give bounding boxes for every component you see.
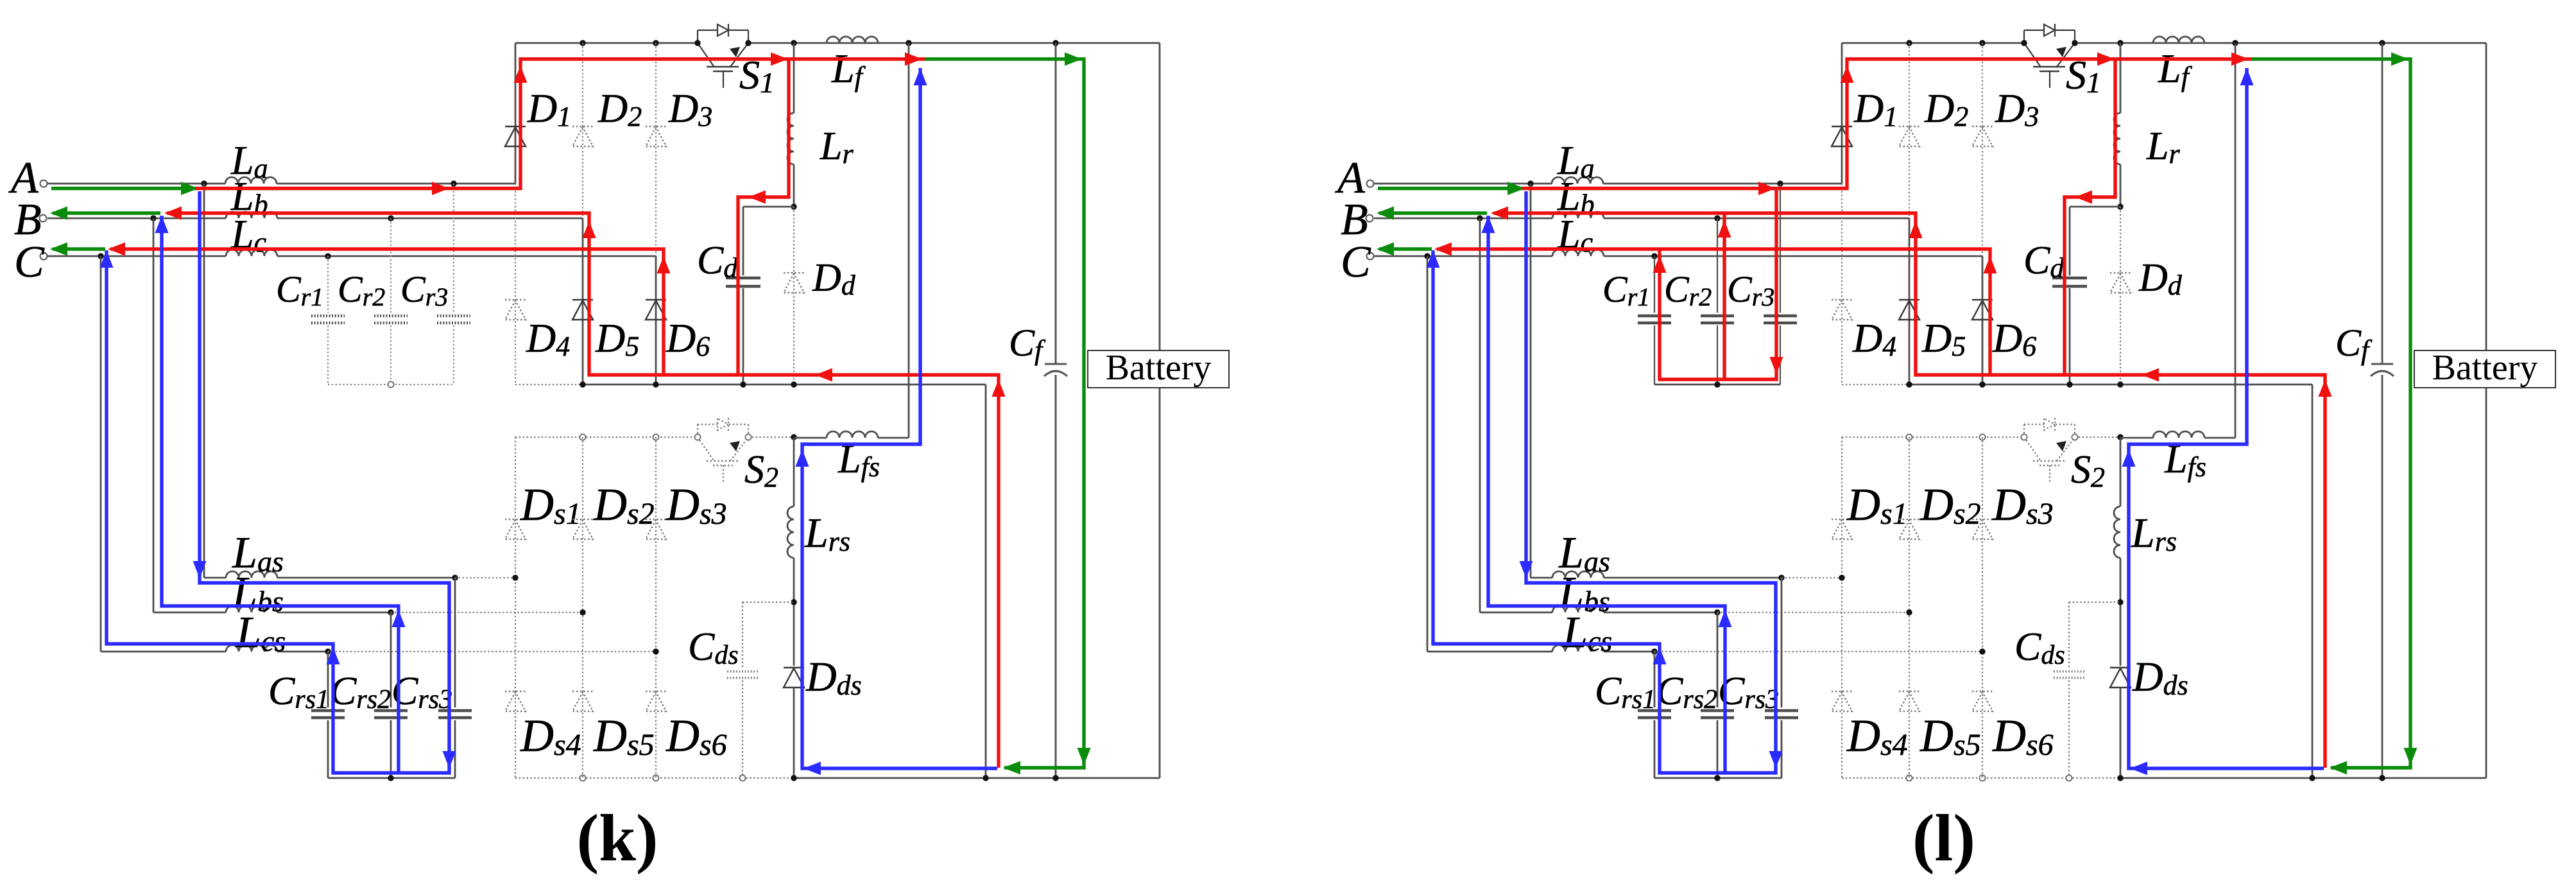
wire riser B (panel l) [1479, 218, 1481, 612]
node A-riser junction (panel k) [201, 180, 207, 186]
capacitor Cr3 (panel l) [1764, 315, 1797, 318]
node Lcs-bridge (panel l) [1979, 648, 1985, 654]
wire D1 column (panel k) [515, 43, 517, 184]
wire top rail right (panel l) [2075, 42, 2486, 44]
node bottom rail Cf (panel k) [1052, 775, 1058, 781]
node Lbs-Crs2 (panel k) [388, 609, 393, 615]
wire Ds3/Ds6 column (panel l) [1982, 437, 1983, 778]
wire riser A (panel k) [203, 184, 205, 578]
node A-Cr3 junction (panel k) [451, 180, 456, 186]
node top rail Lf-out (panel k) [906, 40, 911, 46]
node top rail Cf (panel k) [1052, 40, 1058, 46]
diode D4 (panel l) [1832, 299, 1852, 300]
wire lower bottom rail (panel k) [515, 777, 794, 779]
wire top rail left (panel l) [1842, 42, 2024, 44]
wire D6 column (panel l) [1982, 256, 1984, 385]
svg-text:C: C [14, 238, 45, 287]
node lower rail Ds2 (panel k) [580, 434, 585, 440]
green path phase A in (panel k) [51, 187, 196, 190]
node Lfs junction (panel l) [2117, 434, 2123, 440]
red path A to S1 (panel l) [1522, 59, 2251, 189]
wire bottom rail solid (panel l) [2120, 777, 2486, 779]
diode D4 (panel k) [505, 299, 526, 300]
wire D2 column (panel k) [582, 43, 583, 218]
wire phase C (panel l) [1374, 255, 1552, 257]
wire upper bottom rail dotted (panel l) [1842, 384, 1909, 385]
capacitor Cr3 (panel k) [437, 315, 470, 318]
wire lower bottom rail (panel l) [1842, 777, 2120, 779]
wire phase B (panel k) [47, 218, 226, 220]
wire Cr3 column (panel l) [1780, 184, 1781, 313]
node Las-bridge (panel l) [1839, 575, 1844, 580]
svg-text:(l): (l) [1912, 801, 1975, 875]
inductor Lbs (panel l) [1552, 606, 1604, 612]
blue path Las-Crs3-Crs1 (panel l) [1433, 191, 1776, 773]
wire Lbs row dotted (panel l) [1717, 612, 1909, 613]
inductor Las (panel k) [226, 571, 277, 578]
wire Cr star bus (panel k) [328, 384, 454, 385]
inductor Lr (panel l) [2114, 113, 2120, 164]
node top rail Lf-out (panel l) [2232, 40, 2238, 46]
diode Ds2 (panel k) [572, 519, 593, 520]
IGBT switch S1 (panel k) [697, 30, 698, 43]
wire Lbs row (panel l) [1480, 612, 1552, 614]
wire Cds column (panel k) [742, 602, 743, 669]
green path phase B out (panel l) [1379, 211, 1487, 214]
inductor Lbs (panel k) [226, 606, 277, 612]
node Crs star (panel k) [388, 775, 393, 781]
wire Lr column bottom (panel k) [793, 164, 795, 207]
diode D5 (panel k) [572, 299, 593, 300]
svg-text:Battery: Battery [1106, 348, 1212, 388]
wire Lrs column mid (panel l) [2120, 558, 2122, 666]
node Lrs-Cds junction (panel l) [2117, 599, 2123, 605]
node B-riser junction (panel k) [150, 215, 156, 221]
wire Las row (panel l) [1531, 577, 1552, 579]
diode D2 (panel l) [1899, 126, 1919, 127]
terminal B (panel l) [1366, 215, 1373, 222]
wire upper bottom rail dotted (panel k) [515, 384, 583, 385]
wire Cr1 column (panel l) [1654, 256, 1655, 313]
node lower bottom Ds5 (panel l) [1906, 775, 1912, 781]
wire Cr star bus (panel l) [1654, 384, 1780, 386]
inductor Lf (panel k) [827, 37, 878, 43]
red path Lr-Cd (panel k) [738, 59, 789, 375]
wire Lr column top (panel k) [793, 43, 795, 113]
wire Cds link (panel l) [2069, 601, 2120, 603]
capacitor Crs2 (panel k) [374, 709, 408, 713]
blue path Las-Crs3-Crs1 (panel k) [107, 191, 449, 773]
node Lbs-Crs2 (panel l) [1714, 609, 1720, 615]
wire top rail right (panel k) [748, 42, 1160, 44]
red path return to C (panel k) [110, 249, 664, 375]
inductor Lr (panel k) [787, 113, 794, 164]
diode D3 (panel k) [646, 126, 666, 127]
wire Lcs row (panel k) [101, 651, 226, 653]
node bottom rail Cd (panel l) [2066, 381, 2072, 387]
red path Cr2 up (panel l) [1722, 213, 1726, 379]
wire Lcs row dotted (panel l) [1654, 651, 1982, 652]
capacitor Cds (panel l) [2054, 670, 2084, 672]
wire upper bottom rail (panel k) [583, 384, 986, 386]
blue path Lrs-Lfs out (panel l) [2129, 68, 2324, 768]
red path Cr3 down (panel l) [1660, 189, 1776, 380]
wire Crs star bus (panel k) [328, 777, 455, 779]
wire Crs2 column (panel k) [390, 612, 392, 707]
wire Lfs riser (panel k) [908, 43, 910, 438]
node top rail D3 (panel l) [1979, 40, 1985, 46]
node bottom rail frame (panel l) [2309, 775, 2315, 781]
wire Cd top link (panel l) [2070, 206, 2120, 208]
wire phase A (panel l) [1374, 183, 1552, 185]
diode Dds (panel k) [784, 667, 804, 668]
wire Dds column bottom (panel l) [2120, 688, 2122, 778]
capacitor Crs2 (panel l) [1701, 709, 1734, 713]
inductor Lcs (panel l) [1552, 645, 1604, 652]
wire upper bottom rail (panel l) [1909, 384, 2312, 386]
terminal C (panel l) [1367, 253, 1374, 260]
wire D5 column (panel k) [582, 218, 584, 385]
wire Ds2/Ds5 column (panel l) [1909, 437, 1910, 778]
node bottom rail Dd (panel k) [791, 381, 796, 387]
node lower rail Ds3 (panel k) [653, 434, 658, 440]
green path phase C out (panel k) [53, 247, 105, 250]
capacitor Cf (panel l) [2371, 363, 2393, 365]
wire D4 column (panel k) [515, 184, 516, 385]
IGBT switch S1 (panel l) [2023, 30, 2025, 43]
wire phase A (panel k) [47, 183, 225, 185]
inductor Lb (panel l) [1552, 212, 1604, 218]
wire Crs1 column (panel k) [327, 652, 329, 707]
diode D3 (panel l) [1972, 126, 1993, 127]
node lower rail Ds2 (panel l) [1906, 434, 1912, 440]
wire D6 column (panel k) [655, 256, 657, 385]
node Las-Crs3 (panel k) [452, 575, 458, 580]
node lower bottom Ds6 (panel l) [1979, 775, 1985, 781]
inductor Las (panel l) [1552, 571, 1604, 578]
diode Ds4 (panel k) [505, 691, 526, 692]
wire riser C (panel k) [100, 256, 102, 652]
node Las-bridge (panel k) [512, 575, 518, 580]
diode Dd (panel k) [784, 272, 804, 273]
wire top rail left (panel k) [515, 42, 698, 44]
wire Ds2/Ds5 column (panel k) [582, 437, 583, 778]
red path return to C (panel l) [1437, 249, 1990, 375]
wire riser C (panel l) [1427, 256, 1429, 652]
green path phase C out (panel l) [1379, 247, 1432, 250]
diode D2 (panel k) [572, 126, 593, 127]
node B-Cr2 junction (panel k) [388, 215, 393, 221]
wire Lcs row (panel l) [1427, 651, 1552, 653]
wire D3 column (panel k) [655, 43, 657, 256]
wire Crs3 column (panel l) [1781, 578, 1783, 707]
terminal A (panel k) [40, 180, 47, 187]
capacitor Cf (panel k) [1045, 363, 1067, 365]
wire Crs1 column (panel l) [1654, 652, 1656, 707]
wire Las row dotted (panel l) [1782, 577, 1842, 578]
node Lr-Cd junction (panel k) [791, 203, 796, 209]
diode Ds4 (panel l) [1832, 691, 1852, 692]
inductor Lc (panel l) [1552, 250, 1604, 256]
node bottom rail Dd (panel l) [2117, 381, 2123, 387]
node Cr star (panel k) [388, 381, 393, 387]
wire Cds link (panel k) [743, 601, 794, 603]
wire phase B (panel l) [1374, 218, 1552, 220]
wire D4 column (panel l) [1841, 184, 1842, 385]
wire lower top rail (panel k) [515, 437, 698, 438]
wire Cd column (panel k) [743, 207, 744, 275]
wire Crs2 column (panel l) [1717, 612, 1719, 707]
node top rail Lr (panel l) [2117, 40, 2123, 46]
green path battery loop (panel k) [925, 59, 1084, 768]
node bottom rail D5 (panel l) [1906, 381, 1912, 387]
node Dds bottom (panel k) [791, 775, 796, 781]
capacitor Cr1 (panel l) [1638, 315, 1671, 318]
node lower rail Ds3 (panel l) [1979, 434, 1985, 440]
wire Lfs row (panel l) [2120, 437, 2153, 439]
blue path Lrs-Lfs out (panel k) [802, 68, 997, 768]
diode Ds1 (panel k) [505, 519, 526, 520]
diode Ds1 (panel l) [1832, 519, 1852, 520]
wire phase C (panel k) [47, 255, 226, 257]
inductor Lb (panel k) [226, 212, 277, 218]
battery box (panel k) [1088, 350, 1229, 388]
capacitor Cd (panel l) [2052, 277, 2087, 280]
wire right frame vertical (panel k) [985, 385, 987, 778]
wire Lrs column top (panel k) [793, 438, 795, 506]
node top rail D3 (panel k) [653, 40, 658, 46]
capacitor Crs3 (panel l) [1765, 709, 1798, 713]
wire bottom rail solid (panel k) [794, 777, 1160, 779]
wire Cr3 column (panel k) [453, 184, 454, 313]
inductor Lf (panel l) [2153, 37, 2204, 43]
wire Las row (panel k) [204, 577, 226, 579]
wire Cf column (panel l) [2382, 43, 2383, 363]
diode D1 (panel k) [505, 126, 526, 127]
wire D3 column (panel l) [1982, 43, 1983, 256]
node Lbs-bridge (panel l) [1906, 609, 1912, 615]
node bottom rail D6 (panel k) [653, 381, 658, 387]
node bottom rail frame (panel k) [983, 775, 988, 781]
node Lbs-bridge (panel k) [580, 609, 585, 615]
diode Ds2 (panel l) [1899, 519, 1919, 520]
node C-Cr1 junction (panel k) [325, 253, 331, 259]
node Las-Crs3 (panel l) [1778, 575, 1784, 580]
inductor Lc (panel k) [226, 250, 277, 256]
terminal A (panel l) [1367, 180, 1374, 187]
diode Dds (panel l) [2110, 667, 2131, 668]
inductor Lrs (panel k) [787, 506, 794, 558]
diode D1 (panel l) [1832, 126, 1852, 127]
svg-text:(k): (k) [576, 801, 658, 875]
green path battery loop (panel l) [2251, 59, 2410, 768]
inductor Lrs (panel l) [2114, 506, 2120, 558]
node C-riser junction (panel l) [1424, 253, 1430, 259]
inductor Lfs (panel k) [827, 431, 878, 438]
wire Cf column (panel k) [1055, 43, 1057, 363]
node Cds bottom (panel k) [739, 775, 745, 781]
wire Cds column (panel l) [2068, 602, 2070, 669]
inductor La (panel l) [1552, 177, 1603, 184]
diode Ds5 (panel k) [572, 691, 593, 692]
node Lrs-Cds junction (panel k) [791, 599, 796, 605]
wire battery column (panel l) [2486, 43, 2487, 350]
terminal C (panel k) [40, 253, 47, 260]
terminal B (panel k) [40, 215, 47, 222]
capacitor Cr2 (panel l) [1701, 315, 1734, 318]
wire riser B (panel k) [153, 218, 155, 612]
wire Lbs row dotted (panel k) [391, 612, 583, 613]
node bottom rail D5 (panel k) [580, 381, 585, 387]
wire Lr column top (panel l) [2120, 43, 2122, 113]
wire Cr2 column (panel l) [1717, 218, 1718, 313]
IGBT switch S2 (panel k) [697, 424, 698, 437]
wire D2 column (panel l) [1909, 43, 1910, 218]
wire Lrs column top (panel l) [2120, 438, 2122, 506]
node lower bottom Ds5 (panel k) [580, 775, 585, 781]
node B-Cr2 junction (panel l) [1714, 215, 1720, 221]
node Lcs-bridge (panel k) [653, 648, 658, 654]
node Lr-Cd junction (panel l) [2117, 203, 2123, 209]
wire Ds3/Ds6 column (panel k) [655, 437, 657, 778]
capacitor Cr1 (panel k) [311, 315, 345, 318]
svg-text:C: C [1341, 238, 1371, 287]
node top rail D2 (panel k) [580, 40, 585, 46]
capacitor Cd (panel k) [726, 277, 760, 280]
green path phase B out (panel k) [53, 211, 160, 214]
wire Cd column (panel l) [2069, 207, 2071, 275]
node A-riser junction (panel l) [1527, 180, 1533, 186]
node Lcs-Crs1 (panel l) [1651, 648, 1657, 654]
node lower bottom Ds6 (panel k) [653, 775, 658, 781]
wire Lr column bottom (panel l) [2120, 164, 2122, 207]
diode D6 (panel l) [1972, 299, 1993, 300]
diode Ds6 (panel l) [1972, 691, 1993, 692]
wire Cr2 column (panel k) [390, 218, 391, 313]
inductor La (panel k) [225, 177, 277, 184]
battery box (panel l) [2414, 350, 2555, 388]
diode Ds3 (panel l) [1972, 519, 1993, 520]
wire riser A (panel l) [1530, 184, 1532, 578]
inductor Lfs (panel l) [2153, 431, 2204, 438]
diode D6 (panel k) [646, 299, 666, 300]
wire right frame vertical (panel l) [2312, 385, 2314, 778]
node C-riser junction (panel k) [98, 253, 103, 259]
red path return to B (panel k) [167, 213, 999, 768]
diode Ds3 (panel k) [646, 519, 666, 520]
node Lfs junction (panel k) [791, 434, 796, 440]
green path phase A in (panel l) [1378, 187, 1522, 190]
wire Lfs riser (panel l) [2235, 43, 2237, 438]
wire battery column (panel k) [1159, 43, 1161, 350]
capacitor Crs3 (panel k) [438, 709, 472, 713]
node bottom rail Cf (panel l) [2379, 775, 2385, 781]
node Lcs-Crs1 (panel k) [325, 648, 331, 654]
wire Lfs row (panel k) [794, 437, 827, 439]
wire Lbs row (panel k) [153, 612, 226, 614]
node top rail D2 (panel l) [1906, 40, 1912, 46]
wire Crs star bus (panel l) [1654, 777, 1782, 779]
wire Lrs column mid (panel k) [793, 558, 795, 666]
diode D5 (panel l) [1899, 299, 1919, 300]
node bottom rail D6 (panel l) [1979, 381, 1985, 387]
wire Lcs row dotted (panel k) [328, 651, 656, 652]
node B-riser junction (panel l) [1477, 215, 1482, 221]
wire Crs3 column (panel k) [454, 578, 456, 707]
wire Dd column (panel l) [2120, 207, 2121, 385]
diode Ds6 (panel k) [646, 691, 666, 692]
IGBT switch S2 (panel l) [2023, 424, 2025, 437]
wire Cd top link (panel k) [743, 206, 794, 208]
node C-Cr1 junction (panel l) [1651, 253, 1657, 259]
red path A to S1 (panel k) [196, 59, 925, 189]
node Cr star (panel l) [1714, 381, 1720, 387]
wire Dd column (panel k) [793, 207, 794, 385]
capacitor Cr2 (panel k) [374, 315, 408, 318]
node Dds bottom (panel l) [2117, 775, 2123, 781]
wire Dds column bottom (panel k) [793, 688, 795, 778]
diode Ds5 (panel l) [1899, 691, 1919, 692]
wire Cr1 column (panel k) [327, 256, 329, 313]
red path Lr-Cd (panel l) [2065, 59, 2115, 375]
node top rail Cf (panel l) [2379, 40, 2385, 46]
wire Ds1/Ds4 column (panel l) [1841, 437, 1842, 778]
blue path Crs2 to B (panel l) [1488, 216, 1725, 773]
red path return to B (panel l) [1493, 213, 2325, 768]
capacitor Crs1 (panel l) [1638, 709, 1671, 713]
diode Dd (panel l) [2110, 272, 2131, 273]
wire Ds1/Ds4 column (panel k) [515, 437, 516, 778]
capacitor Cds (panel k) [727, 670, 758, 672]
node bottom rail Cd (panel k) [740, 381, 746, 387]
node Crs star (panel l) [1714, 775, 1720, 781]
wire Las row dotted (panel k) [455, 577, 515, 578]
node top rail Lr (panel k) [791, 40, 796, 46]
capacitor Crs1 (panel k) [311, 709, 345, 713]
wire D5 column (panel l) [1909, 218, 1911, 385]
inductor Lcs (panel k) [226, 645, 277, 652]
svg-text:Battery: Battery [2432, 348, 2538, 388]
blue path Crs2 to B (panel k) [162, 216, 399, 773]
node A-Cr3 junction (panel l) [1777, 180, 1783, 186]
node Cds bottom (panel l) [2066, 775, 2072, 781]
wire lower top rail (panel l) [1842, 437, 2024, 438]
wire D1 column (panel l) [1841, 43, 1843, 184]
